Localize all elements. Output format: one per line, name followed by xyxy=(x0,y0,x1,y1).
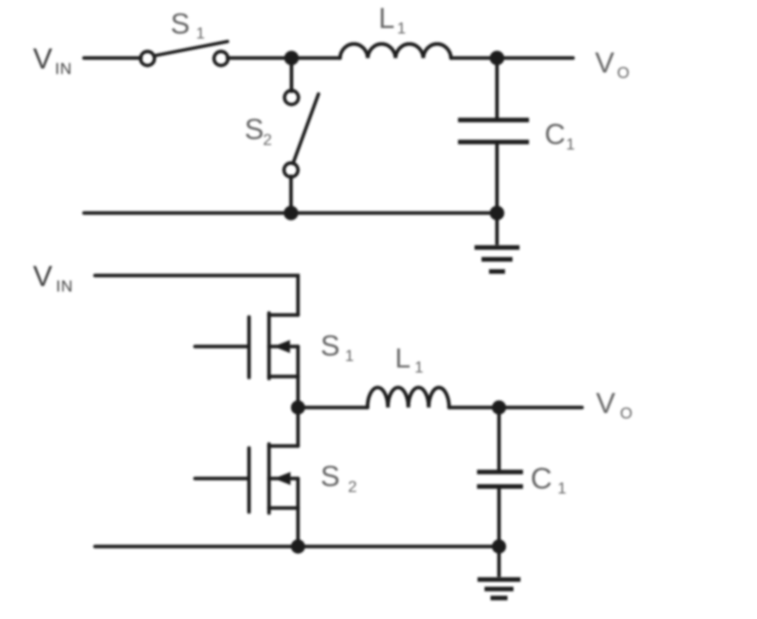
wire S1 to node A xyxy=(228,56,292,60)
node rail-C1 junction (bottom) xyxy=(492,539,506,553)
ground (top circuit) xyxy=(475,213,520,272)
svg-text:L: L xyxy=(395,343,411,374)
svg-text:1: 1 xyxy=(345,348,354,365)
label S1 (bottom circuit) xyxy=(321,331,355,366)
label C1 (top) xyxy=(545,119,576,154)
wire S2 to bottom rail xyxy=(289,176,293,213)
node B junction xyxy=(490,51,505,66)
label S1 xyxy=(171,9,206,43)
node VIN (top circuit) label V_IN xyxy=(33,44,72,79)
svg-text:2: 2 xyxy=(263,132,272,149)
node VIN (bottom circuit) label V_IN xyxy=(33,261,73,296)
node rail-S2 junction xyxy=(284,206,299,221)
node rail-Q2 junction xyxy=(291,539,305,553)
svg-text:V: V xyxy=(33,44,53,76)
svg-text:1: 1 xyxy=(566,137,575,154)
svg-text:2: 2 xyxy=(348,479,357,496)
wire bottom rail (bottom circuit) xyxy=(95,545,499,549)
switch S1 xyxy=(141,42,229,66)
wire bottom rail (top circuit) xyxy=(84,211,497,215)
wire C1 to bottom rail xyxy=(495,144,499,213)
wire VIN to S1 xyxy=(84,56,141,60)
wire node A to L1 xyxy=(292,56,341,60)
capacitor C1 (bottom) xyxy=(477,472,523,487)
label S2 xyxy=(245,114,273,149)
svg-text:S: S xyxy=(171,9,190,41)
label C1 (bottom) xyxy=(531,463,567,498)
label S2 (bottom circuit) xyxy=(321,461,358,496)
wire C1 to bottom rail (bottom circuit) xyxy=(497,489,501,547)
transistor Q1 body arrow xyxy=(274,340,291,353)
svg-text:S: S xyxy=(321,331,340,363)
switch S2 xyxy=(284,91,319,178)
label L1 (bottom) xyxy=(395,343,424,377)
svg-text:IN: IN xyxy=(55,61,72,78)
svg-text:1: 1 xyxy=(415,360,424,377)
svg-text:C: C xyxy=(545,119,566,151)
node VO (bottom circuit) label V_O xyxy=(596,388,632,423)
wire node B to VO xyxy=(497,56,573,60)
node VO (top circuit) label V_O xyxy=(595,48,629,83)
label L1 (top) xyxy=(379,3,407,38)
svg-text:V: V xyxy=(596,388,616,420)
inductor L1 (bottom) xyxy=(368,387,450,407)
svg-text:V: V xyxy=(33,261,53,293)
svg-text:O: O xyxy=(617,65,629,82)
svg-text:S: S xyxy=(321,461,340,493)
svg-text:C: C xyxy=(531,463,553,496)
wire node A down to S2 xyxy=(290,58,294,91)
svg-text:V: V xyxy=(595,48,615,80)
svg-text:1: 1 xyxy=(196,26,205,43)
node A junction xyxy=(284,51,299,66)
node C junction xyxy=(492,400,506,414)
node rail-C1 junction xyxy=(490,206,505,221)
wire L1 to node VO (bottom) xyxy=(449,406,582,410)
wire node B down to C1 xyxy=(495,58,499,118)
transistor Q2 body arrow xyxy=(274,472,291,485)
transistor Q1 (switch S1, top MOSFET) xyxy=(195,313,298,408)
wire VIN top rail (bottom circuit) xyxy=(95,276,298,316)
svg-text:O: O xyxy=(620,406,632,423)
node SW junction xyxy=(291,400,305,414)
wire L1 to node B xyxy=(451,56,497,60)
capacitor C1 (top) xyxy=(458,120,529,142)
svg-text:1: 1 xyxy=(397,21,406,38)
wire node C down to C1 xyxy=(497,408,501,471)
ground (bottom circuit) xyxy=(478,547,521,599)
transistor Q2 (switch S2, bottom MOSFET) xyxy=(195,408,298,547)
svg-text:1: 1 xyxy=(558,481,567,498)
svg-text:IN: IN xyxy=(56,279,73,296)
wire SW node to L1 xyxy=(298,406,368,410)
svg-text:L: L xyxy=(379,3,395,35)
svg-text:S: S xyxy=(245,114,264,146)
inductor L1 (top) xyxy=(340,44,451,58)
